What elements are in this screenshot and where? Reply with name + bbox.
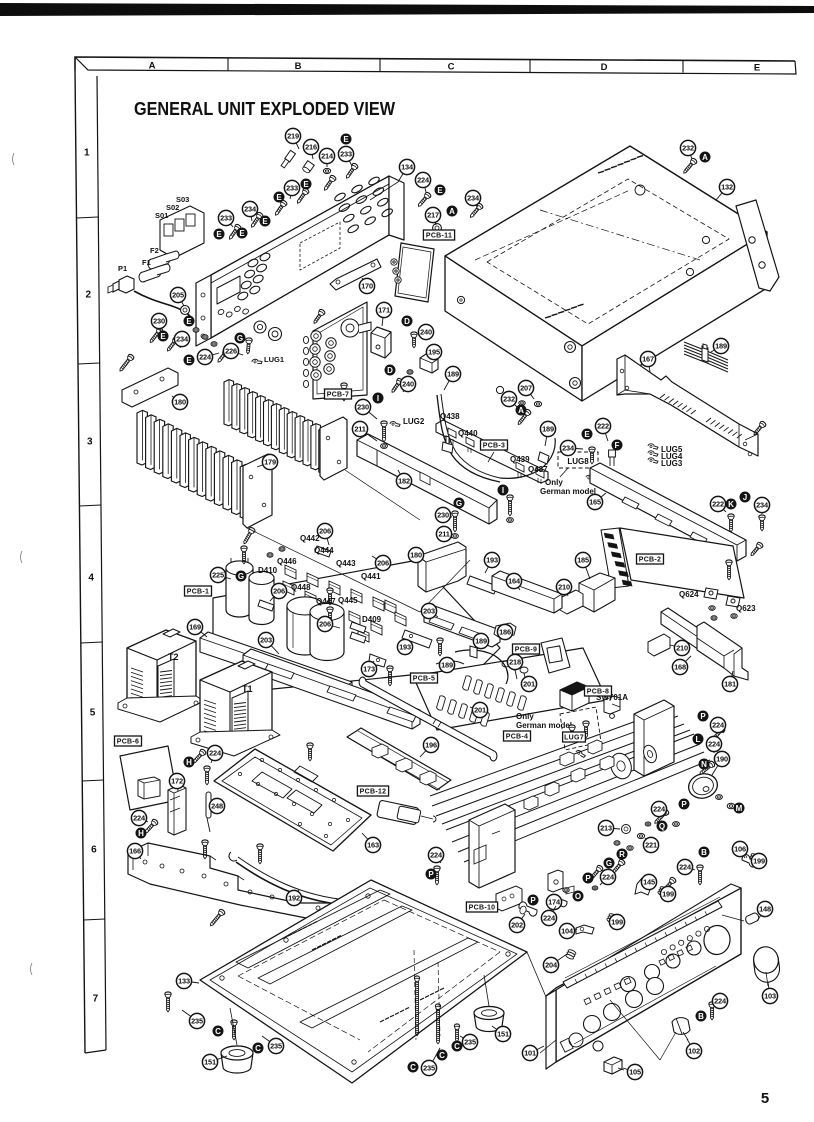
label PCB-9 — [513, 644, 540, 654]
rail 165 — [590, 463, 746, 561]
svg-text:240: 240 — [420, 328, 432, 337]
callout 206 — [372, 555, 391, 570]
svg-text:205: 205 — [172, 291, 184, 300]
svg-text:6: 6 — [91, 845, 97, 856]
svg-text:179: 179 — [264, 458, 276, 467]
svg-text:G: G — [606, 859, 612, 868]
nut 213 — [622, 825, 631, 834]
fastener key M — [734, 803, 745, 814]
german model arrow — [560, 468, 568, 477]
chassis 106 right plate — [634, 700, 674, 776]
callout 218 — [507, 654, 522, 669]
rod 192 — [236, 862, 376, 908]
fastener key E — [158, 331, 169, 342]
svg-text:224: 224 — [708, 740, 721, 749]
svg-text:Q438: Q438 — [440, 412, 460, 421]
screw — [118, 353, 135, 373]
svg-text:C: C — [215, 1027, 221, 1036]
washer — [202, 335, 208, 339]
svg-text:224: 224 — [653, 805, 666, 814]
header divider A-B — [227, 59, 229, 72]
spring — [748, 853, 759, 864]
washer — [592, 886, 598, 890]
top cover right wall — [582, 232, 767, 401]
callout 224 — [712, 993, 727, 1008]
wing part 145 — [635, 878, 650, 895]
svg-text:E: E — [186, 317, 192, 326]
callout 189 — [439, 657, 454, 672]
screw — [507, 495, 513, 516]
top cover right wall hole — [686, 268, 693, 275]
lug — [648, 444, 658, 449]
svg-text:Q437: Q437 — [528, 465, 548, 474]
callout 224 — [710, 717, 725, 733]
svg-text:230: 230 — [153, 317, 165, 326]
callout 225 — [210, 567, 231, 582]
screw — [327, 588, 333, 605]
top cover front wall — [445, 256, 582, 401]
callout 101 — [522, 1045, 544, 1060]
svg-text:PCB-10: PCB-10 — [469, 905, 496, 912]
washer — [381, 444, 388, 449]
svg-text:D: D — [404, 317, 410, 326]
chassis big pulley — [607, 751, 634, 782]
svg-text:LUG3: LUG3 — [661, 459, 683, 468]
svg-text:230: 230 — [357, 403, 369, 412]
svg-text:LUG7: LUG7 — [564, 735, 584, 742]
screw — [204, 766, 210, 785]
transistor pad Q624 — [704, 588, 718, 599]
svg-text:PCB-8: PCB-8 — [587, 689, 610, 696]
svg-text:E: E — [754, 63, 760, 74]
PCB-5 transistor row 201 b — [437, 696, 490, 726]
callout 224 — [706, 736, 721, 753]
washer — [731, 614, 737, 619]
callout 172 — [169, 773, 184, 791]
fastener key E — [184, 355, 195, 366]
relay bracket 171 — [371, 327, 391, 358]
callout 230 — [355, 399, 377, 419]
svg-text:217: 217 — [427, 211, 439, 220]
top cover 132 face — [445, 146, 767, 346]
svg-text:PCB-11: PCB-11 — [426, 233, 452, 240]
wire 189 clamp a — [470, 646, 477, 658]
svg-text:German model: German model — [540, 487, 596, 496]
svg-text:K: K — [728, 500, 734, 509]
svg-text:E: E — [276, 193, 282, 202]
svg-text:P: P — [700, 712, 706, 721]
svg-text:189: 189 — [441, 661, 453, 670]
callout 217 — [425, 207, 440, 225]
screw — [728, 514, 734, 532]
svg-text:T1: T1 — [242, 684, 253, 694]
screw — [295, 187, 310, 205]
screw — [231, 1020, 237, 1040]
svg-text:102: 102 — [688, 1047, 700, 1056]
capacitor C2 — [249, 572, 274, 625]
border frame outer line — [75, 57, 795, 70]
bottom plate inner line — [210, 888, 517, 1072]
fastener key J — [740, 492, 751, 503]
callout 240 — [400, 376, 415, 392]
top cover wall grommet 1 — [565, 342, 576, 353]
leader 148 — [722, 915, 744, 921]
screw — [307, 743, 313, 761]
screw — [143, 818, 159, 835]
callout 230 — [151, 313, 166, 331]
svg-text:132: 132 — [721, 183, 733, 192]
label PCB-1 — [185, 586, 212, 596]
column header band — [75, 57, 796, 74]
bracket 181 — [697, 622, 748, 680]
T1 foot flange — [191, 730, 280, 756]
PCB-12 board — [377, 800, 420, 825]
wire harness 189 center — [437, 395, 500, 482]
label LUG7 — [563, 732, 586, 742]
flywheel 190 — [686, 771, 720, 802]
svg-text:J: J — [743, 493, 747, 502]
svg-text:182: 182 — [398, 477, 410, 486]
svg-text:German model: German model — [516, 721, 572, 730]
leader 105 — [618, 1068, 624, 1070]
pushbutton 105 — [604, 1057, 622, 1074]
screw 219 shaft — [280, 150, 295, 168]
bracket 173 — [368, 654, 386, 671]
screw — [411, 332, 417, 348]
pin 248 — [206, 792, 211, 832]
svg-text:104: 104 — [561, 927, 574, 936]
callout 207 — [518, 380, 534, 399]
callout 182 — [396, 470, 411, 489]
callout 235 — [182, 1010, 205, 1029]
rear panel inner dashed region — [300, 222, 340, 270]
svg-text:Q624: Q624 — [679, 590, 699, 599]
bracket 172 — [168, 785, 186, 835]
svg-text:213: 213 — [600, 824, 612, 833]
power cord — [134, 291, 190, 316]
screw — [454, 1024, 459, 1042]
bracket 167 — [617, 355, 758, 456]
svg-text:I: I — [502, 486, 504, 495]
roller 202 — [519, 902, 537, 916]
screw — [710, 725, 726, 742]
top cover rear flange — [736, 200, 779, 291]
label PCB-8 — [585, 686, 612, 696]
svg-text:B: B — [295, 61, 302, 72]
callout 210 — [670, 640, 690, 655]
svg-text:PCB-12: PCB-12 — [360, 789, 387, 796]
callout 134 — [398, 159, 415, 182]
PCB-4 dashed outline — [560, 707, 601, 750]
screw — [241, 527, 255, 546]
panel knob circles row upper — [621, 977, 636, 992]
fastener key D — [402, 316, 413, 327]
fastener key E — [301, 179, 312, 190]
callout 196 — [420, 737, 439, 757]
knob 103 — [751, 945, 781, 983]
callout 224 — [197, 349, 219, 364]
page top black bar — [0, 3, 814, 16]
heatsink 179 left — [137, 410, 251, 519]
callout 193 — [484, 552, 499, 573]
bottom plate dashed diagonals — [238, 900, 384, 976]
callout 234 — [560, 440, 583, 455]
svg-text:Q447: Q447 — [316, 597, 336, 606]
svg-text:G: G — [238, 572, 244, 581]
top cover wall hole a — [457, 296, 464, 303]
rear panel oval hole cluster left — [237, 252, 271, 302]
plate 163 small holes — [238, 758, 349, 837]
bracket 195 — [420, 354, 438, 373]
callout 205 — [170, 287, 185, 306]
roller 202 b — [552, 895, 567, 907]
fastener key B — [696, 1011, 707, 1022]
svg-text:206: 206 — [377, 559, 389, 568]
transistor Q439 icon — [516, 462, 524, 478]
svg-text:4: 4 — [88, 573, 94, 584]
callout 192 — [286, 890, 301, 906]
callout 219 — [285, 128, 300, 149]
svg-text:E: E — [160, 332, 166, 341]
fastener key G — [454, 498, 465, 509]
svg-text:Q442: Q442 — [300, 534, 320, 543]
screw — [452, 511, 458, 532]
svg-text:233: 233 — [286, 184, 298, 193]
screw — [216, 348, 230, 364]
callout 180 — [408, 547, 426, 562]
washer — [614, 841, 620, 845]
screw — [661, 876, 677, 893]
callout 240 — [418, 324, 434, 339]
svg-text:E: E — [262, 217, 268, 226]
screw — [709, 1002, 715, 1020]
svg-text:Q440: Q440 — [458, 429, 478, 438]
chassis latch parts — [560, 752, 574, 766]
callout 189 — [473, 633, 488, 650]
screw — [759, 515, 765, 531]
T2 foot flange — [118, 696, 204, 722]
rail 165 holes — [622, 497, 639, 509]
callout 195 — [426, 344, 441, 360]
callout 232 — [501, 391, 517, 407]
fastener key P — [528, 895, 539, 906]
svg-text:201: 201 — [523, 680, 535, 689]
header divider C-D — [529, 60, 531, 73]
capacitor C3 — [287, 597, 323, 655]
svg-text:Q446: Q446 — [277, 557, 297, 566]
panel button squares a — [584, 945, 692, 1004]
PCB-5 board — [413, 648, 607, 730]
svg-text:LUG2: LUG2 — [403, 417, 425, 426]
svg-text:PCB-2: PCB-2 — [639, 557, 662, 564]
label PCB-2 — [637, 554, 664, 564]
svg-text:202: 202 — [511, 921, 523, 930]
svg-text:169: 169 — [189, 623, 201, 632]
screw — [435, 1004, 440, 1044]
fastener key C — [253, 1043, 264, 1054]
PCB-6 board — [120, 746, 178, 810]
left border outer line — [75, 70, 85, 1053]
grommet pair 226 — [254, 321, 266, 333]
callout 202 — [509, 914, 525, 933]
svg-text:240: 240 — [402, 380, 414, 389]
fuse holder F2 — [148, 251, 179, 269]
T1 bobbin hatch — [234, 703, 246, 744]
rear panel rectangular cutout — [217, 276, 240, 304]
svg-text:189: 189 — [715, 342, 727, 351]
screw — [437, 638, 443, 656]
plate 193 right — [467, 576, 497, 594]
leader 102 — [683, 1032, 688, 1040]
svg-text:P: P — [681, 800, 687, 809]
callout 233 — [338, 146, 353, 166]
svg-text:232: 232 — [503, 395, 515, 404]
svg-text:105: 105 — [629, 1068, 641, 1077]
washer — [519, 401, 525, 406]
block 185 — [579, 573, 615, 612]
chassis channel 182 — [357, 434, 497, 524]
svg-text:P: P — [428, 870, 434, 879]
screw — [588, 864, 604, 881]
flange holes — [749, 237, 755, 243]
callout 203 — [421, 603, 438, 618]
fastener key P — [698, 711, 709, 722]
S01 S02 S03 socket block — [160, 206, 204, 258]
nut 216 — [302, 161, 315, 174]
screw — [344, 162, 359, 180]
callout 233 — [284, 180, 299, 199]
fastener key F — [612, 440, 623, 451]
T2 bobbin hatch — [160, 671, 172, 709]
svg-text:G: G — [456, 499, 462, 508]
callout 164 — [506, 573, 521, 590]
svg-text:1: 1 — [84, 148, 90, 159]
callout 213 — [598, 820, 620, 835]
screw — [698, 760, 716, 776]
svg-text:C: C — [439, 1051, 445, 1060]
PCB-7 edge cylinders — [303, 336, 308, 387]
transistor pad Q623 — [726, 596, 740, 607]
callout 211 — [352, 421, 377, 441]
label PCB-11 — [423, 230, 454, 240]
screw — [583, 721, 589, 738]
svg-text:D410: D410 — [258, 566, 278, 575]
callout 180 — [172, 394, 188, 409]
svg-text:172: 172 — [171, 777, 183, 786]
screw — [752, 420, 767, 436]
svg-text:224: 224 — [543, 914, 556, 923]
svg-text:PCB-9: PCB-9 — [515, 647, 538, 654]
screw — [273, 199, 288, 217]
screw — [569, 725, 575, 742]
row tick 4 — [81, 642, 103, 643]
callout 222 — [595, 418, 610, 441]
svg-text:P: P — [585, 874, 591, 883]
svg-text:D409: D409 — [362, 615, 382, 624]
svg-text:234: 234 — [756, 501, 769, 510]
svg-text:E: E — [303, 180, 309, 189]
screw — [414, 976, 419, 1036]
leader 103 — [766, 972, 768, 986]
PCB-9 part — [547, 646, 562, 663]
washer — [709, 606, 715, 611]
wire clamp 189 right — [702, 344, 708, 362]
svg-text:Q439: Q439 — [510, 455, 530, 464]
svg-text:166: 166 — [129, 847, 141, 856]
svg-text:224: 224 — [133, 814, 146, 823]
svg-text:145: 145 — [643, 878, 655, 887]
callout 224 — [428, 847, 443, 863]
callout 104 — [559, 923, 577, 938]
plate 163 inner edge — [222, 757, 362, 845]
svg-text:Q444: Q444 — [314, 546, 334, 555]
callout 234 — [174, 331, 189, 348]
callout 224 — [677, 859, 695, 874]
svg-text:189: 189 — [542, 425, 554, 434]
chassis pulley ellipse — [641, 743, 658, 764]
screw — [381, 421, 387, 442]
cord grommet 205 — [181, 306, 190, 315]
fastener key B — [699, 847, 710, 858]
PCB-6 component — [138, 777, 160, 799]
top cover inner dashed outline — [487, 179, 729, 324]
callout 210 — [556, 579, 571, 596]
plate 163 cutouts — [252, 772, 292, 798]
wires 189 right — [684, 342, 728, 372]
callout 233 — [218, 210, 233, 227]
cover center hole — [635, 185, 645, 195]
svg-text:Q623: Q623 — [736, 604, 756, 613]
svg-text:211: 211 — [354, 425, 365, 434]
screw — [726, 560, 732, 580]
panel lower-left knobs — [569, 1033, 583, 1047]
T2 laminations — [131, 668, 143, 706]
svg-text:211: 211 — [438, 530, 449, 539]
callout 132 — [716, 179, 735, 200]
callout 206 — [270, 583, 287, 601]
nut 217 — [433, 224, 442, 233]
label PCB-10 — [466, 902, 497, 912]
left margin scan mark 2 — [21, 551, 23, 563]
rail 164 — [492, 571, 562, 613]
svg-text:189: 189 — [475, 637, 487, 646]
svg-text:224: 224 — [714, 997, 727, 1006]
screw — [389, 377, 403, 394]
callout 230 — [435, 507, 452, 522]
foot 151 left — [221, 1046, 253, 1073]
harness clamp 2 — [538, 452, 549, 464]
T2 top tab — [163, 629, 180, 637]
screw — [245, 338, 253, 354]
callout 193 — [397, 639, 412, 654]
label PCB-3 leader — [488, 452, 494, 462]
svg-text:235: 235 — [423, 1064, 435, 1073]
diagonal construction line a — [247, 528, 420, 612]
screw — [257, 844, 263, 864]
svg-text:F: F — [615, 441, 620, 450]
callout 179 — [257, 454, 278, 469]
svg-text:F2: F2 — [150, 246, 159, 255]
callout 224 — [541, 906, 556, 926]
bracket 167 hatch slots — [660, 394, 742, 438]
chassis 106 left plate — [469, 804, 515, 888]
svg-text:E: E — [186, 356, 192, 365]
svg-text:P1: P1 — [118, 264, 127, 273]
svg-text:224: 224 — [199, 353, 212, 362]
callout 151 — [202, 1054, 227, 1069]
svg-text:190: 190 — [716, 755, 728, 764]
left margin scan mark 3 — [31, 963, 33, 975]
